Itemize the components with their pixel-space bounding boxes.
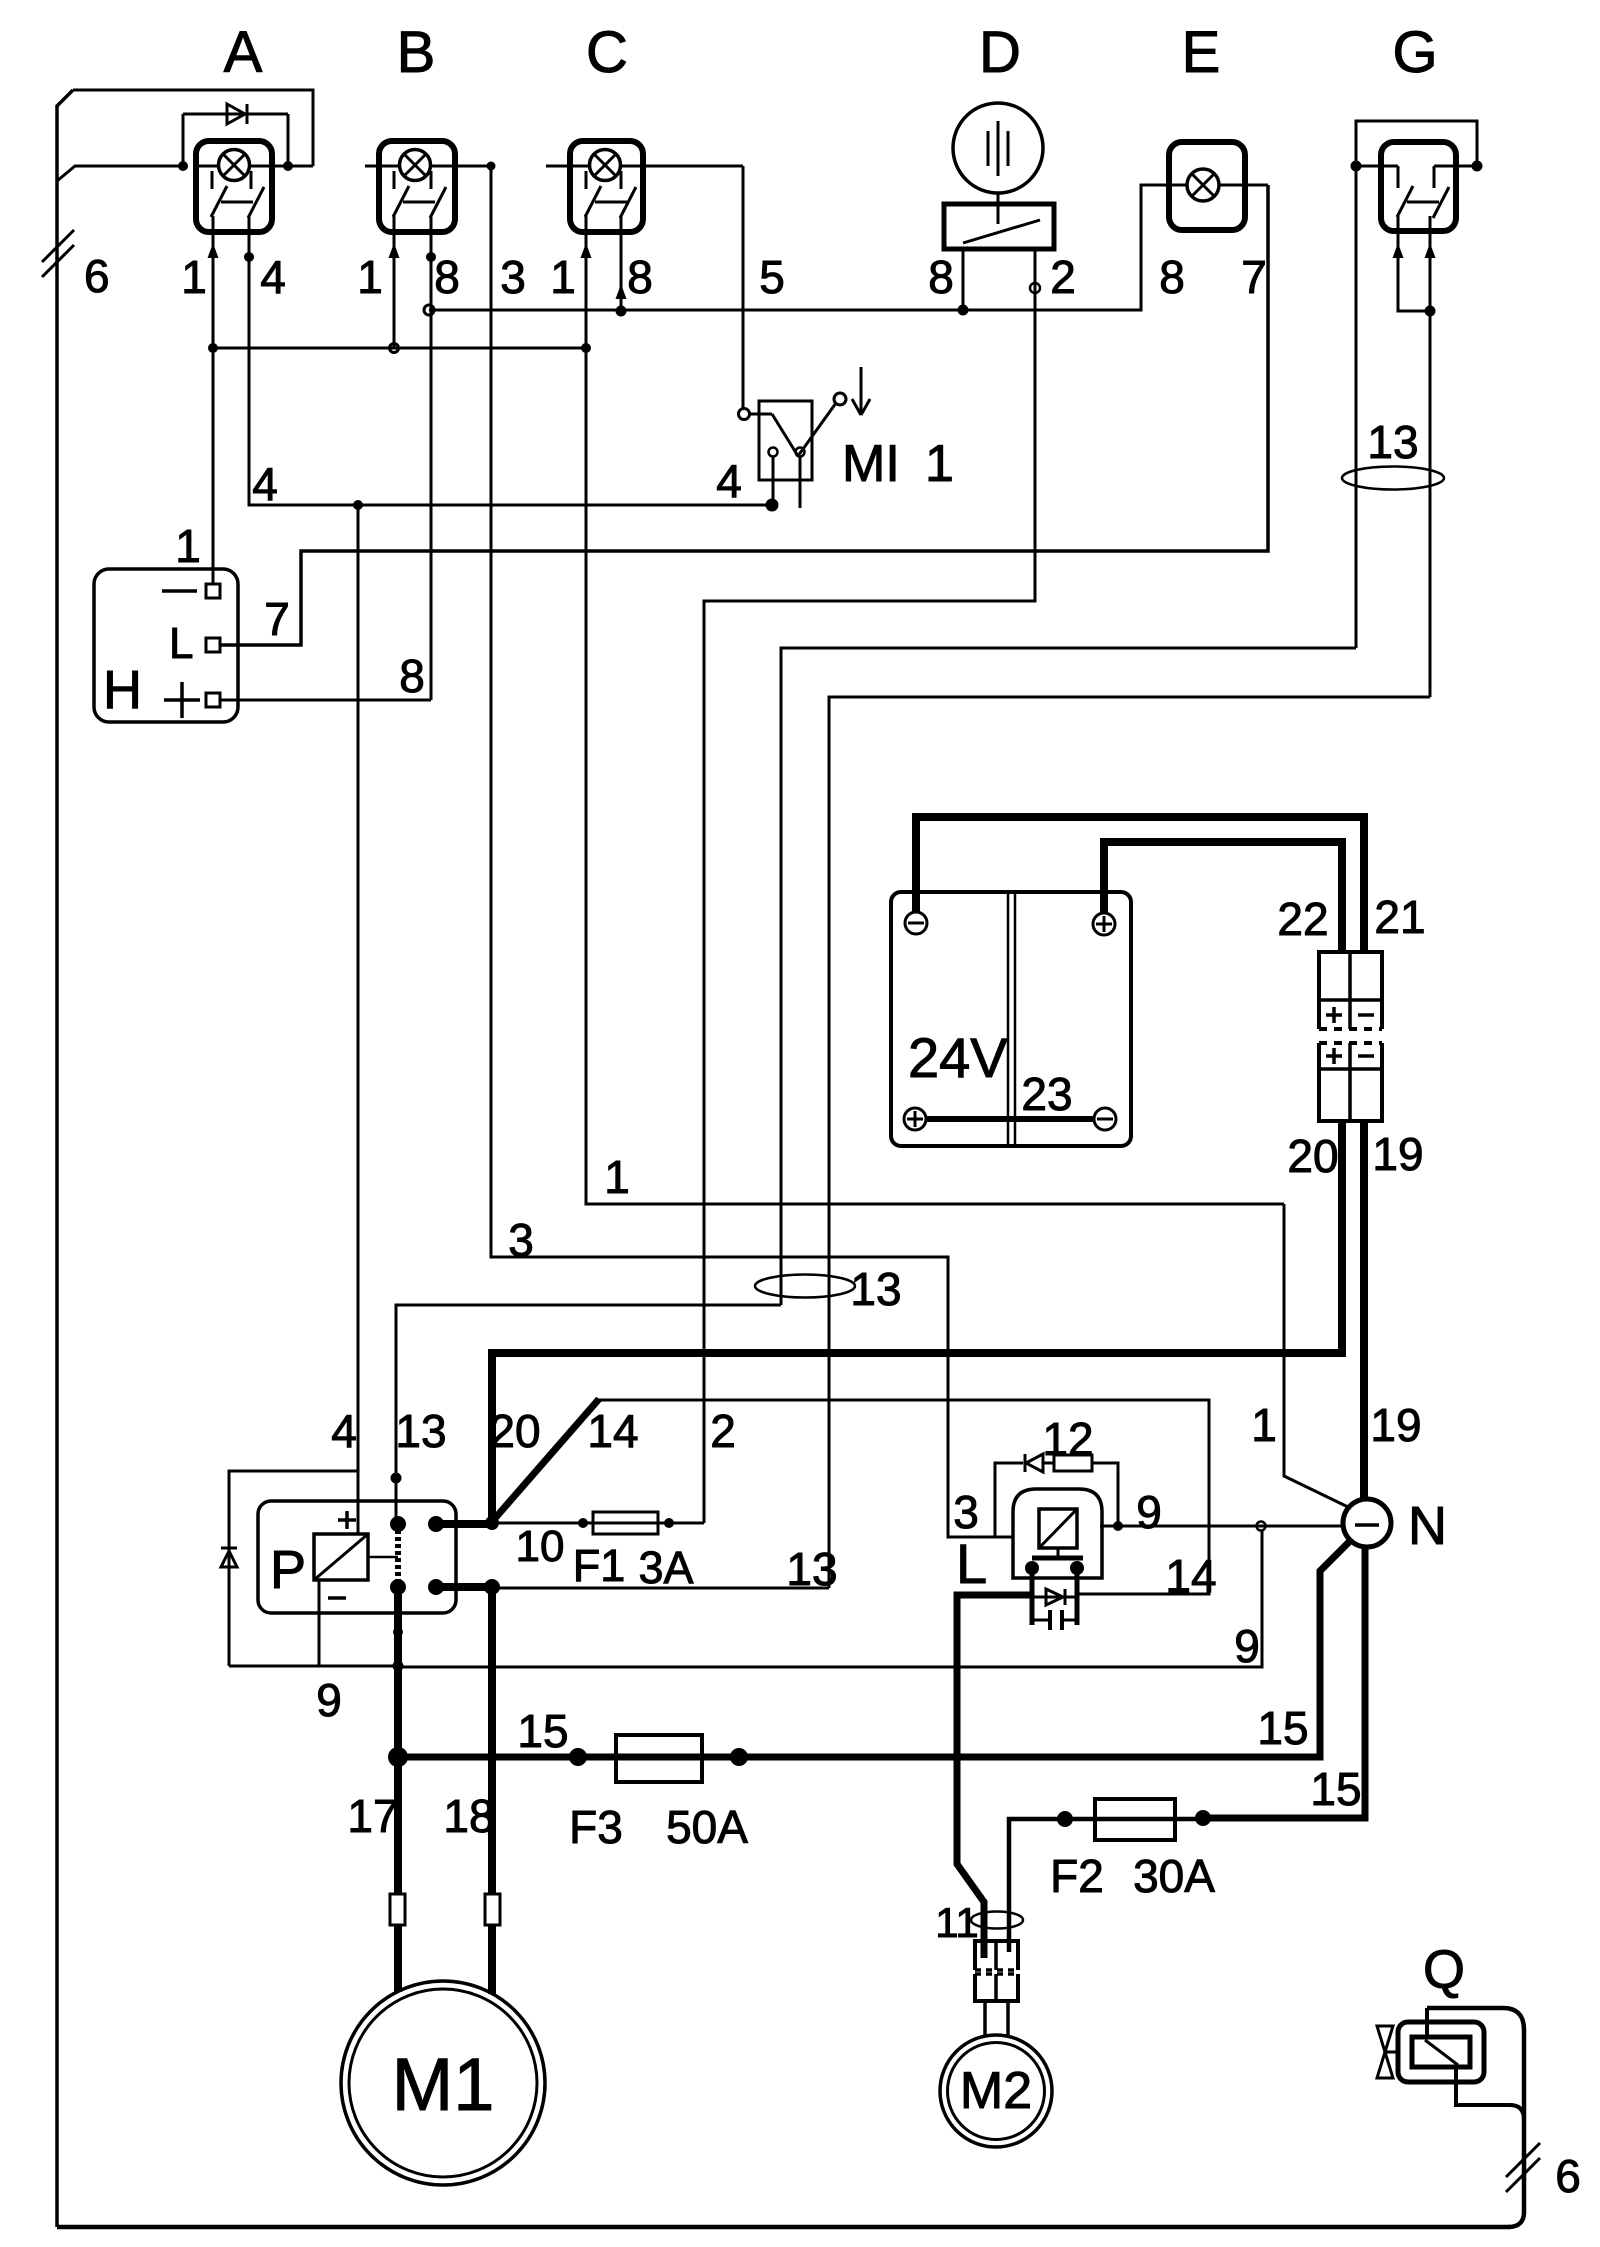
node: big junction 17/15: [388, 1747, 408, 1767]
node: L coil lower terminals: [1025, 1561, 1039, 1575]
svg-text:15: 15: [1257, 1702, 1308, 1754]
node: P contact dots: [390, 1516, 406, 1532]
heavy stub P bottom-right contact: [436, 1583, 492, 1591]
wire 14 from P via right leg to L coil: [597, 1400, 1209, 1594]
connector block 22/21 upper half: [1319, 952, 1382, 1029]
svg-text:2: 2: [710, 1405, 736, 1457]
connector dot on wire A4: [244, 252, 254, 262]
wire: left border net 6 vertical: [57, 90, 73, 2227]
lamp unit E: [1169, 142, 1245, 230]
diode across M2 feed: [1032, 1596, 1077, 1599]
wire 9 drop and run to P area: [398, 1530, 1262, 1667]
node: junction D8: [958, 305, 969, 316]
svg-text:MI: MI: [842, 435, 900, 493]
svg-text:G: G: [1392, 20, 1437, 85]
wire 1 diagonal into N: [1284, 1204, 1348, 1507]
wire MI1 right contact stub: [799, 457, 802, 508]
wire into G left / right: [1356, 165, 1398, 168]
svg-text:6: 6: [1555, 2150, 1581, 2202]
svg-text:7: 7: [264, 593, 290, 645]
connector 13 ellipse mid: [755, 1275, 855, 1298]
lamp-switch unit C: [570, 141, 643, 232]
break symbol 6 right border: [1506, 2143, 1540, 2177]
wire 13 into relay P top contact: [396, 1305, 781, 1519]
svg-text:1: 1: [181, 251, 207, 303]
svg-text:2: 2: [1050, 251, 1076, 303]
valve symbol X: [1377, 2026, 1393, 2052]
wire from G contacts: left y697 then down x829: [829, 697, 1430, 1588]
svg-text:1: 1: [550, 251, 576, 303]
wire: border top horizontal to A loop: [73, 90, 313, 166]
svg-text:3A: 3A: [638, 1542, 693, 1593]
svg-text:4: 4: [716, 455, 742, 507]
node: junction on wire 4 at x358: [353, 500, 363, 510]
svg-text:12: 12: [1042, 1413, 1093, 1465]
node: ring junction B8 with 310 line: [424, 305, 434, 315]
wire 3 from C area down to relay L coil: [491, 166, 1013, 1537]
svg-text:5: 5: [759, 251, 785, 303]
svg-text:M1: M1: [392, 2043, 495, 2126]
svg-text:3: 3: [953, 1486, 979, 1538]
svg-text:3: 3: [500, 251, 526, 303]
wire MI1 left contact to wire 4: [772, 457, 775, 505]
wire 20 heavy from connector to relay P contact: [492, 1121, 1342, 1523]
wire: border chamfer into lamp A feed at y=166: [57, 166, 183, 181]
wire: line of terminals 8 at y310: [429, 185, 1169, 310]
svg-text:14: 14: [587, 1405, 638, 1457]
svg-text:1: 1: [925, 435, 954, 493]
svg-text:4: 4: [260, 251, 286, 303]
wire D terminal 2 down, jog left, down to fuse F1: [704, 249, 1035, 1523]
node: dot wire3 top: [487, 162, 496, 171]
svg-text:8: 8: [1159, 251, 1185, 303]
node: heavy node at 20/14/10: [485, 1516, 499, 1530]
svg-text:19: 19: [1372, 1128, 1423, 1180]
wire B terminal 8 down to H plus: [430, 216, 433, 700]
svg-text:8: 8: [434, 251, 460, 303]
bottom border wire: [57, 2225, 1510, 2230]
connector block 20/19 lower half: [1319, 1043, 1382, 1121]
heavy wire L coil to motor M2: [957, 1595, 1032, 1958]
wire D terminal 8: [962, 249, 965, 310]
node: junction C1: [581, 343, 591, 353]
wire C terminal 8 down to 310 line: [620, 216, 623, 310]
svg-text:15: 15: [517, 1705, 568, 1757]
connector block above M2 lower half: [975, 1974, 1018, 2001]
svg-text:P: P: [270, 1540, 306, 1600]
wire battery minus to connector 21: [916, 817, 1364, 952]
svg-text:1: 1: [1251, 1399, 1277, 1451]
wire 9 from relay L to N: [1100, 1525, 1343, 1528]
heavy diagonal wire 14: [490, 1399, 599, 1524]
svg-text:30A: 30A: [1133, 1850, 1215, 1902]
svg-text:1: 1: [175, 520, 201, 572]
wire from G loop: left y648 then down x781: [781, 648, 1356, 1305]
battery 24V: [891, 892, 1131, 1146]
wire: A lamp to right loop: [272, 165, 313, 168]
wire diode loop bottom to 9 line: [229, 1665, 398, 1668]
node: junction A1 with lamp common line: [208, 343, 218, 353]
wire 7 from H L terminal to lamp E: [220, 185, 1268, 645]
svg-text:13: 13: [850, 1263, 901, 1315]
svg-text:Q: Q: [1423, 1940, 1465, 2000]
svg-text:4: 4: [331, 1405, 357, 1457]
relay L coil: [1013, 1489, 1102, 1578]
lamp-switch unit B: [379, 141, 455, 232]
node: junction dots on A feed: [178, 161, 188, 171]
svg-text:21: 21: [1374, 891, 1425, 943]
actuation arrow of MI1: [860, 367, 863, 414]
svg-text:B: B: [397, 20, 436, 85]
svg-text:50A: 50A: [666, 1801, 748, 1853]
svg-text:17: 17: [347, 1790, 398, 1842]
wire C terminal 1 down and right toward N: [586, 216, 1284, 1204]
solenoid valve Q body: [1398, 2022, 1484, 2082]
wire A terminal 1 down to H minus: [212, 216, 215, 584]
node: dots at G terminals: [1351, 161, 1362, 172]
diode across lamp A: [182, 114, 185, 166]
motor M1: [341, 1981, 545, 2185]
svg-text:24V: 24V: [908, 1026, 1008, 1089]
connector block above M2 upper half: [975, 1941, 1018, 1970]
heavy wire 18 to motor M1: [488, 1587, 496, 1994]
wire G right contact down to corner y697: [1429, 216, 1432, 697]
switch unit G: [1381, 142, 1456, 231]
break symbol 6 on left border: [42, 230, 74, 262]
svg-text:F1: F1: [573, 1540, 626, 1591]
svg-text:D: D: [979, 20, 1021, 85]
lamp-switch unit A: [196, 141, 272, 232]
svg-text:9: 9: [316, 1674, 342, 1726]
node: junction at 9 line: [393, 1661, 404, 1672]
component H flasher unit: [94, 569, 238, 722]
wire G feed down from loop through connector 13: [1355, 166, 1358, 648]
svg-text:F2: F2: [1050, 1850, 1104, 1902]
battery series link 23: [926, 1116, 1094, 1122]
svg-text:F3: F3: [569, 1801, 623, 1853]
wire Q coil top to border: [1425, 2008, 1429, 2037]
svg-text:20: 20: [1287, 1130, 1338, 1182]
P moving contact link (hatched): [395, 1530, 401, 1582]
svg-text:22: 22: [1277, 893, 1328, 945]
fuse F1 3A: [593, 1512, 658, 1534]
wires connector to motor M2: [983, 2001, 987, 2036]
diode branch across P coil: [229, 1471, 358, 1666]
svg-text:9: 9: [1234, 1620, 1260, 1672]
connector 11 ellipse: [971, 1912, 1023, 1929]
svg-text:H: H: [103, 660, 142, 720]
node: junction wire4 / MI1: [766, 499, 779, 512]
wire 19 heavy from connector to node N: [1360, 1121, 1368, 1501]
wire battery plus to connector 22: [1104, 842, 1342, 952]
svg-text:11: 11: [935, 1899, 979, 1946]
svg-text:1: 1: [357, 251, 383, 303]
svg-text:M2: M2: [960, 2062, 1032, 2120]
svg-text:C: C: [586, 20, 628, 85]
svg-text:L: L: [956, 1532, 987, 1595]
heavy wire 15 from 17 node through F3 to N: [398, 1541, 1350, 1757]
svg-text:13: 13: [1367, 416, 1418, 468]
svg-text:8: 8: [627, 251, 653, 303]
wire 13 from G contacts into P lower contact line: [492, 1587, 829, 1590]
component D horn: [953, 103, 1043, 193]
connector ring on wire 2: [1030, 283, 1040, 293]
wire Q coil bottom to border: [1456, 2067, 1524, 2120]
svg-text:6: 6: [84, 250, 110, 302]
wire G left contact down, jog to right contact wire: [1398, 216, 1430, 311]
svg-text:3: 3: [508, 1214, 534, 1266]
connector 13 ellipse at G: [1342, 467, 1444, 490]
relay P body: [258, 1501, 456, 1613]
wire 10 with fuse F1 to wire 2: [492, 1522, 704, 1525]
svg-text:4: 4: [252, 458, 278, 510]
svg-text:8: 8: [928, 251, 954, 303]
switch MI 1: [759, 401, 812, 480]
heavy wire N to F2 line: [1203, 1546, 1365, 1818]
motor M2: [940, 2035, 1052, 2147]
svg-text:18: 18: [443, 1790, 494, 1842]
svg-text:9: 9: [1136, 1486, 1162, 1538]
node: dot on wire 13: [391, 1473, 402, 1484]
node: junction G wires: [1425, 306, 1436, 317]
svg-text:E: E: [1182, 20, 1221, 85]
wire: loop above switch G: [1356, 121, 1477, 166]
wire P coil minus down: [318, 1580, 321, 1666]
svg-text:8: 8: [399, 650, 425, 702]
wire: lamp common line terminals 1: [213, 347, 586, 350]
wire 4 into P coil plus: [357, 505, 360, 1534]
svg-text:A: A: [224, 20, 263, 85]
svg-text:20: 20: [489, 1405, 540, 1457]
svg-text:10: 10: [516, 1522, 565, 1571]
node: ring junction on wire 9: [1257, 1522, 1266, 1531]
wire A terminal 4 down then right to MI1: [249, 217, 772, 505]
node N: [1343, 1499, 1391, 1547]
svg-text:1: 1: [604, 1151, 630, 1203]
capacitor across M2 feed: [1032, 1619, 1050, 1622]
fuse F2 30A: [1095, 1799, 1175, 1840]
wire F2 line to connector 11: [1009, 1819, 1203, 1952]
svg-text:13: 13: [395, 1405, 446, 1457]
wire B terminal 1 down to common line: [393, 216, 396, 348]
svg-text:23: 23: [1021, 1068, 1072, 1120]
inline connectors on M1 wires: [390, 1894, 405, 1925]
heavy stub P top-right contact: [436, 1520, 492, 1528]
wire 5 down to switch MI1: [742, 166, 745, 409]
heavy wire 17 to motor M1: [394, 1587, 402, 1992]
svg-text:L: L: [169, 619, 193, 668]
svg-text:7: 7: [1241, 251, 1267, 303]
svg-text:19: 19: [1370, 1399, 1421, 1451]
node: ring junction B1: [390, 344, 399, 353]
wire 8 from H plus terminal: [220, 699, 431, 702]
suppression loop 12: diode and resistor across coil: [995, 1463, 1023, 1537]
svg-text:N: N: [1408, 1496, 1447, 1556]
connector arrow on wire A1: [208, 243, 219, 258]
svg-text:15: 15: [1310, 1763, 1361, 1815]
svg-text:14: 14: [1165, 1550, 1216, 1602]
fuse F3 50A: [616, 1735, 702, 1782]
node: junction C8: [616, 306, 627, 317]
